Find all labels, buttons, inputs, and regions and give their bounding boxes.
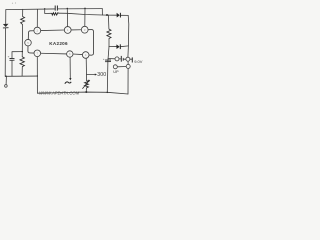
svg-text:WWW.APDATA.COM: WWW.APDATA.COM — [39, 91, 80, 96]
svg-text:+: + — [103, 57, 105, 61]
svg-text:300: 300 — [97, 72, 106, 78]
svg-text:9.0V: 9.0V — [134, 59, 143, 64]
svg-text:UP: UP — [113, 69, 119, 74]
svg-text:+: + — [8, 55, 10, 59]
svg-text:KA2206: KA2206 — [49, 41, 68, 46]
